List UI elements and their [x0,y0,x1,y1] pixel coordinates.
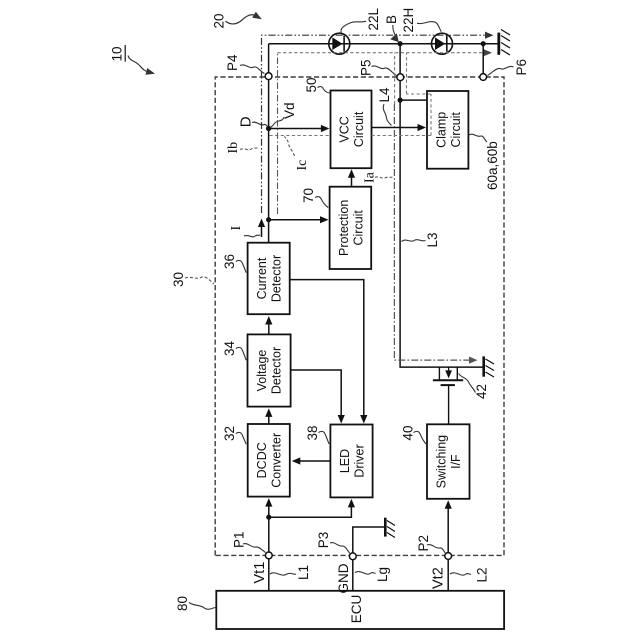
label L1 with leader [270,565,311,580]
svg-text:40: 40 [401,425,416,440]
label I with leader [229,226,260,237]
svg-text:Driver: Driver [352,444,366,477]
svg-text:I: I [229,226,244,231]
label Ic with dashed leader [285,137,311,171]
ground G2 (MOSFET source ground) [484,356,494,377]
svg-text:10: 10 [110,46,125,61]
svg-text:32: 32 [222,426,237,441]
svg-text:36: 36 [222,254,237,269]
svg-text:22L: 22L [366,7,381,30]
svg-text:Ic: Ic [295,160,310,171]
label 60a,60b [469,134,500,190]
block Voltage Detector 34 [248,334,291,406]
junction dot on Vt1 wire [266,515,271,520]
wire junction to Protection Circuit input [269,216,329,223]
svg-text:Ib: Ib [226,142,241,154]
svg-text:P3: P3 [316,532,331,549]
svg-text:GND: GND [336,563,351,593]
junction node D (dot) [266,126,271,131]
current path Ic along line D (chain) [277,53,279,214]
label 34 [222,340,246,360]
svg-text:42: 42 [474,384,489,399]
node P1 [265,552,272,559]
label 22H with leader [401,8,441,33]
label 32 [222,426,246,444]
svg-text:Vt2: Vt2 [431,567,447,589]
label 70 [301,188,328,208]
wire Protection Circuit to VCC Circuit with Ia [348,169,355,187]
wire Voltage to Current Detector [265,316,272,334]
svg-text:80: 80 [175,596,190,611]
block Current Detector 36 [248,243,290,315]
label Ia with dashed leader [363,171,393,183]
svg-text:22H: 22H [401,8,416,33]
current path Ic to ground with arrow [278,49,493,56]
label L4 with leader [377,87,392,126]
svg-text:70: 70 [301,188,316,203]
svg-text:ECU: ECU [349,595,364,624]
svg-text:34: 34 [222,340,237,356]
svg-text:Circuit: Circuit [351,210,365,246]
block Clamp Circuit 60 [427,91,468,169]
label P4 with leader [225,54,265,74]
svg-text:Vd: Vd [282,102,297,119]
figure label 10 with underline and arrow [110,45,156,75]
label 30 [171,272,214,287]
current path Ia chain line to ground [394,104,477,364]
wire branch to LED Driver input [269,499,355,517]
junction dot bus to P5 [398,41,403,46]
label P2 [416,535,446,554]
svg-text:50: 50 [304,77,319,92]
svg-text:P6: P6 [514,59,529,76]
ground G3 (lamp bus ground) [499,30,510,56]
wire L3 long segment [400,100,483,367]
svg-text:Detector: Detector [269,255,283,302]
label 36 [222,254,246,273]
svg-text:38: 38 [305,425,320,440]
block DCDC Converter 32 [248,424,290,497]
label P5 with leader [359,59,397,76]
wire LED Driver feedback to DCDC [292,457,331,464]
wire D junction to VCC Circuit input [269,125,330,132]
svg-text:Voltage: Voltage [255,350,269,392]
wire Current Detector to LED Driver [290,280,368,424]
dashed boundary box 30 [215,77,504,555]
svg-text:Protection: Protection [337,200,351,256]
lamp unit label 20 with arrow [212,12,262,29]
svg-text:60a,60b: 60a,60b [485,141,500,190]
label Vd with leader [270,102,297,127]
svg-text:Circuit: Circuit [449,112,463,148]
node P2 [445,553,452,560]
svg-text:LED: LED [338,449,352,473]
wire bus to P6 [482,44,484,77]
label L2 with leader [450,567,490,582]
ground G1 (signal ground for P3) [385,518,395,538]
svg-text:L1: L1 [296,565,311,580]
svg-text:P5: P5 [359,59,374,76]
current I arrow (solid) [258,219,265,238]
svg-text:Switching: Switching [435,435,449,489]
wire GND: ECU to P3 to ground [353,527,384,591]
junction dot bus to P6 [481,41,486,46]
wire L4: VCC to Clamp Circuit [372,124,427,131]
label D with leader [238,116,269,127]
svg-text:Vt1: Vt1 [252,562,268,584]
wire Voltage Detector to LED Driver [291,370,345,424]
node P6 [480,74,487,81]
svg-text:L3: L3 [425,232,440,247]
label L3 with leader [402,232,441,247]
label 38 [305,425,329,444]
node P3 [349,553,356,560]
label P6 with leader [488,59,530,76]
block VCC Circuit 50 [331,91,372,169]
wire L3: P5 junction down and to MOSFET [399,81,401,101]
block Protection Circuit 70 [330,187,372,269]
svg-text:VCC: VCC [338,116,352,142]
label 22L with leader [341,7,381,33]
label 42 with leader [459,374,490,400]
wire Vt2: ECU to P2 to Switching I/F [445,500,452,591]
label B with arrow leader [384,15,399,42]
svg-text:Circuit: Circuit [352,111,366,147]
svg-text:Converter: Converter [269,433,283,488]
svg-text:L2: L2 [475,567,490,582]
svg-text:30: 30 [171,272,186,287]
wire P5 junction to Clamp Circuit [400,99,427,101]
wire bus to P5 [399,44,401,78]
svg-text:P4: P4 [225,54,240,71]
svg-text:D: D [238,116,255,127]
wire Vt1: ECU to P1 to DCDC converter [265,498,272,591]
label 50 [304,77,330,93]
node P5 [397,74,404,81]
label 80 [175,596,216,611]
svg-text:B: B [384,15,399,24]
MOSFET 42 (switching element) [433,367,463,424]
svg-text:Current: Current [255,257,269,299]
svg-text:I/F: I/F [449,454,463,469]
svg-text:Clamp: Clamp [435,112,449,148]
label Ib with dashed leader [226,142,259,154]
wire DCDC to Voltage Detector [265,408,272,424]
label 40 [401,425,426,444]
svg-text:L4: L4 [377,87,392,103]
svg-text:Lg: Lg [375,567,390,582]
svg-text:20: 20 [212,13,227,28]
label Lg with leader [355,567,390,582]
junction dot to Protection [266,217,271,222]
node P4 [265,73,272,80]
LED 22H [432,33,453,54]
svg-text:DCDC: DCDC [255,442,269,478]
block Switching I/F 40 [427,424,470,499]
label P1 [232,531,266,552]
svg-text:P1: P1 [232,531,247,548]
current path Ib (two-dot chain with arrow to ground) [262,32,494,213]
lamp bus line B (battery line through LEDs) [269,43,498,45]
svg-text:P2: P2 [416,535,431,552]
ECU block 80 [216,591,504,629]
block LED Driver 38 [330,425,372,498]
LED 22L [329,33,350,54]
junction dot L3 [398,97,403,102]
label P3 [316,532,350,554]
current path Ic (fine dashed loop) [270,53,432,136]
svg-text:Detector: Detector [269,347,283,394]
wire D line: Current Detector to node P4 and lamp bus [268,44,270,243]
